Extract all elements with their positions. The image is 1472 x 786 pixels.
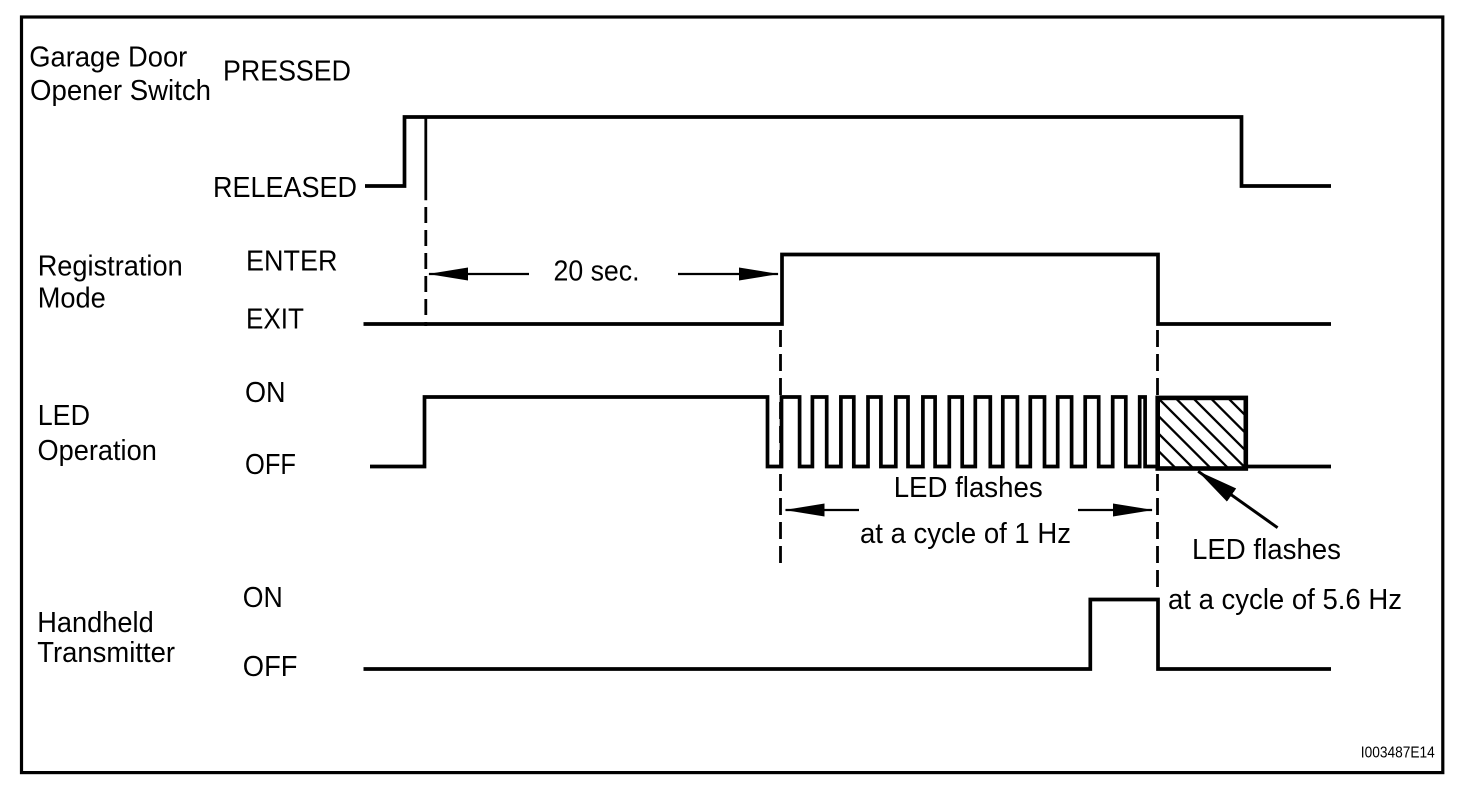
svg-text:Handheld: Handheld [37,607,153,639]
wire: garage door opener switch waveform [365,117,1331,186]
svg-text:Registration: Registration [38,251,183,283]
wire: LED off level after hatched box [1248,465,1331,469]
svg-text:OFF: OFF [245,449,296,481]
svg-text:ENTER: ENTER [246,246,338,278]
svg-text:EXIT: EXIT [246,304,304,336]
wire: 1 Hz left arrow [786,509,860,511]
svg-text:LED flashes: LED flashes [894,472,1043,504]
wire: registration mode waveform [364,255,1332,325]
svg-text:Mode: Mode [38,283,106,315]
svg-text:at a cycle of 1 Hz: at a cycle of 1 Hz [860,518,1071,550]
svg-text:PRESSED: PRESSED [223,55,351,87]
svg-text:RELEASED: RELEASED [213,172,357,204]
node: time marker at registration exit (dashed) [1156,330,1159,594]
node: time marker at registration entry (dashed) [779,330,782,568]
hatched box: LED flashes at 5.6 Hz [1078,388,1336,488]
wire: arrow pointing to hatched box [1198,471,1277,527]
svg-text:20 sec.: 20 sec. [554,255,640,287]
svg-text:ON: ON [243,582,283,614]
wire: 1 Hz right arrow [1078,509,1152,511]
svg-text:Garage Door: Garage Door [29,42,187,74]
wire: 20 sec left arrow [429,273,529,275]
svg-text:LED flashes: LED flashes [1192,534,1341,566]
svg-text:Transmitter: Transmitter [37,637,175,669]
svg-text:I003487E14: I003487E14 [1361,745,1435,762]
wire: handheld transmitter waveform [364,600,1332,670]
svg-text:Operation: Operation [38,435,157,467]
svg-text:Opener Switch: Opener Switch [30,75,211,107]
wire: LED operation waveform with 1 Hz flashing [370,397,1157,467]
node: time marker at switch press (dashed part) [424,207,427,326]
svg-text:at a cycle of 5.6 Hz: at a cycle of 5.6 Hz [1168,584,1402,616]
svg-text:LED: LED [38,400,90,432]
wire: 20 sec right arrow [678,273,778,275]
node: time marker at switch press (solid part) [424,117,427,200]
svg-text:ON: ON [245,377,286,409]
svg-text:OFF: OFF [243,651,298,683]
